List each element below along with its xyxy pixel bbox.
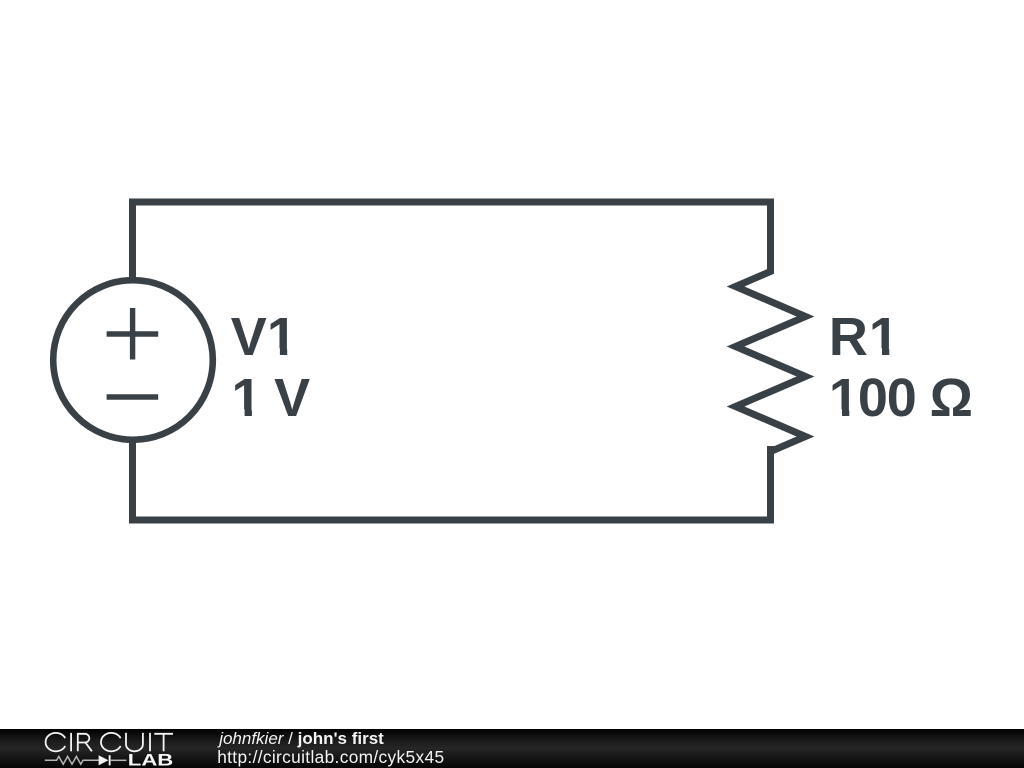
wire: bottom loop from R1 bottom, across bottom, up to V1 bottom (133, 442, 771, 520)
logo letter U (126, 733, 143, 751)
logo diode cathode bar (109, 755, 111, 765)
credit text: url (217, 749, 444, 766)
logo word CIRCUIT (drawn letters) (46, 733, 173, 751)
svg-text:V1: V1 (231, 307, 297, 367)
credit text: author / title (219, 730, 384, 747)
logo letter R (78, 734, 92, 752)
resistor R1 (736, 205, 806, 516)
logo resistor-diode symbol (45, 756, 127, 764)
logo letter C (101, 733, 121, 751)
minus sign of V1 (107, 394, 159, 399)
logo diode triangle (99, 755, 109, 765)
white covers to remove foot serif of digit 1 glyphs (233, 348, 899, 417)
logo letter I (70, 733, 72, 751)
svg-text:1 V: 1 V (232, 368, 311, 428)
logo letter T (154, 734, 173, 752)
svg-text:LAB: LAB (128, 751, 174, 768)
logo letter I (149, 733, 151, 751)
footer black bar (0, 729, 1024, 768)
voltage source V1 circle (53, 280, 213, 440)
svg-text:R1: R1 (829, 307, 900, 367)
wire: top loop from V1 top, across top, down to R1 top (133, 202, 771, 278)
svg-text:100 Ω: 100 Ω (829, 368, 972, 428)
CircuitLab logo (40, 730, 180, 768)
logo letter C (46, 733, 66, 751)
plus sign of V1 (107, 308, 159, 360)
